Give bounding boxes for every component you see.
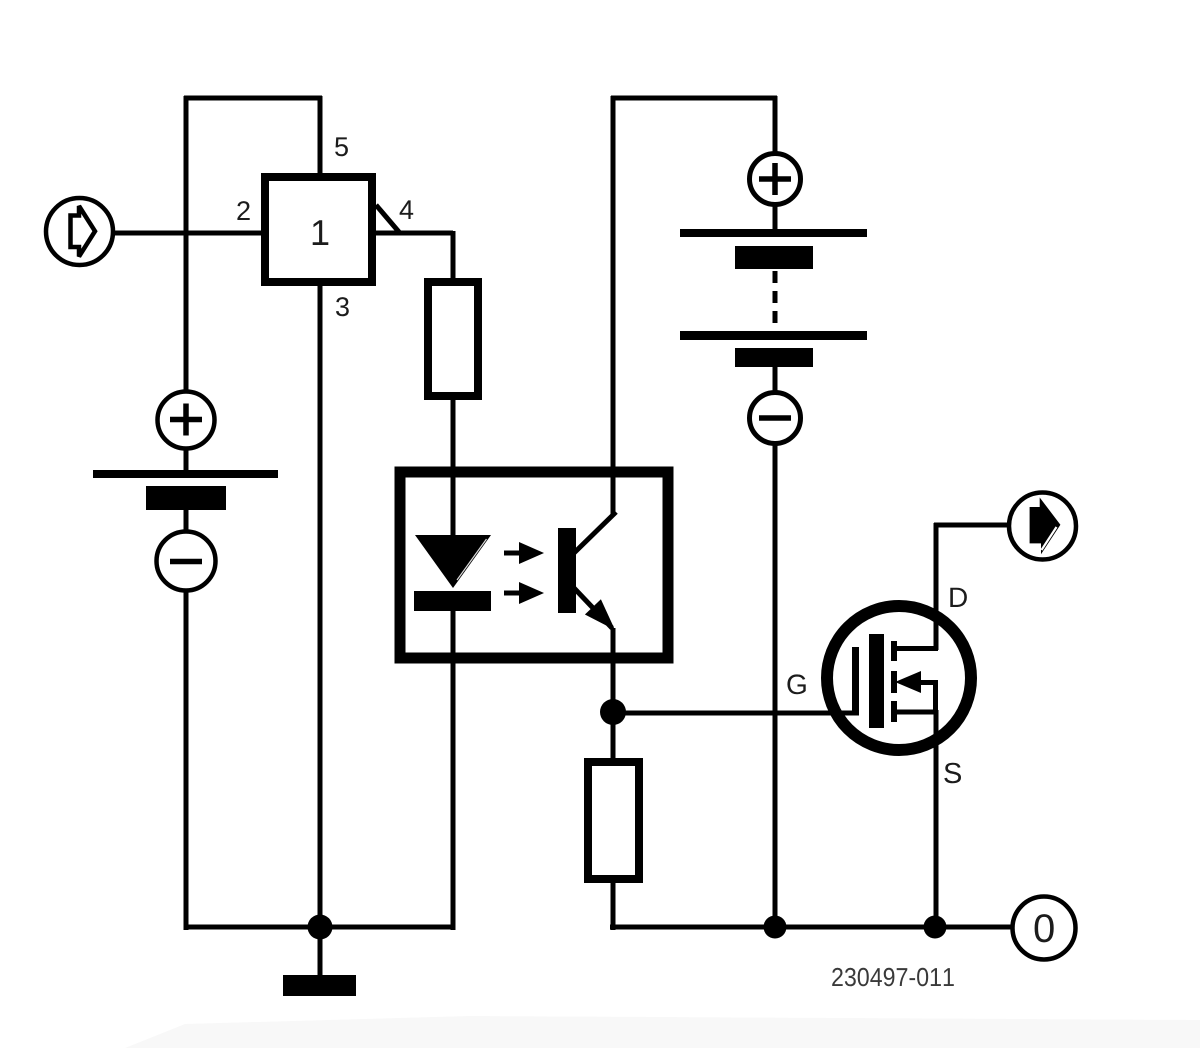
wire pin 4 vertical to R1 bbox=[451, 231, 456, 280]
battery BT2 bar 1 bbox=[735, 246, 813, 269]
MOSFET source stub bbox=[897, 710, 938, 715]
wire input to pin 2 bbox=[113, 231, 263, 236]
wire R2 to bottom bbox=[611, 881, 616, 930]
IC block 1 bbox=[265, 177, 372, 282]
wire pin 4 horizontal bbox=[375, 231, 453, 236]
battery BT1 minus terminal bbox=[157, 532, 216, 591]
battery BT2 dashed link bbox=[773, 271, 778, 331]
wire bottom-right horizontal bbox=[610, 925, 1011, 930]
MOSFET tick source bbox=[891, 701, 897, 722]
junction dot source bottom bbox=[924, 916, 947, 939]
battery BT2 plus terminal bbox=[750, 154, 801, 205]
junction dot ground node bbox=[308, 915, 333, 940]
wire to battery2 + bbox=[773, 96, 778, 153]
wire ground lead bbox=[318, 927, 323, 977]
wire gate node to R2 bbox=[611, 710, 616, 760]
label 1 bbox=[313, 220, 329, 245]
label D bbox=[950, 588, 967, 607]
battery BT1 plus terminal bbox=[158, 392, 215, 449]
MOSFET tick body bbox=[891, 671, 897, 693]
wire output horizontal bbox=[934, 523, 1009, 528]
wire drain vertical bbox=[934, 523, 939, 650]
input terminal bbox=[46, 198, 113, 265]
pin label 3 bbox=[336, 297, 349, 316]
wire LED cathode down bbox=[451, 609, 456, 930]
caption 230497-011 bbox=[832, 968, 954, 987]
junction dot battery2 bottom bbox=[764, 916, 787, 939]
battery BT1 thick bar bbox=[146, 486, 226, 510]
wire battery2 - down to bottom junction bbox=[773, 443, 778, 930]
MOSFET T1 body circle bbox=[827, 606, 971, 750]
wire top-left horizontal bbox=[184, 96, 322, 101]
MOSFET body-source link bbox=[933, 682, 938, 712]
paper shading bottom strip bbox=[125, 1016, 1200, 1048]
resistor R2 bbox=[588, 762, 639, 879]
battery BT2 bar 2 bbox=[735, 348, 813, 367]
wire emitter down to gate node bbox=[611, 628, 616, 716]
wire gate horizontal bbox=[613, 711, 857, 716]
wire battery cell to minus circle bbox=[184, 508, 189, 533]
wire pin 3 vertical bbox=[318, 285, 323, 927]
battery BT2 plate 2 bbox=[680, 331, 867, 340]
pin label 5 bbox=[335, 137, 348, 156]
wire left vertical (top wire to battery +) bbox=[184, 96, 189, 392]
wire top-right horizontal bbox=[611, 96, 777, 101]
wire pin 5 vertical bbox=[318, 96, 323, 175]
MOSFET body arrow bbox=[895, 671, 921, 693]
resistor R1 bbox=[428, 282, 478, 396]
MOSFET drain stub bbox=[897, 646, 938, 651]
MOSFET body stub bbox=[918, 680, 938, 685]
pin label 4 bbox=[400, 200, 414, 219]
junction dot gate node bbox=[600, 699, 626, 725]
wire battery2 bar2 to minus circle bbox=[773, 366, 778, 393]
MOSFET tick drain bbox=[891, 641, 897, 661]
LED highlight bbox=[457, 539, 487, 580]
battery BT2 minus terminal bbox=[750, 393, 801, 444]
optocoupler box bbox=[400, 472, 668, 658]
phototransistor base plate bbox=[558, 528, 576, 613]
MOSFET channel bar bbox=[869, 634, 884, 728]
pin label 2 bbox=[237, 201, 249, 220]
ground symbol bbox=[283, 975, 356, 996]
phototransistor emitter arrowhead bbox=[585, 599, 615, 630]
label G bbox=[787, 674, 805, 694]
wire source vertical bbox=[934, 710, 939, 927]
light arrow 1 bbox=[504, 542, 544, 564]
wire R1 to LED anode bbox=[451, 398, 456, 537]
phototransistor emitter diagonal bbox=[574, 588, 612, 628]
wire bottom-left horizontal bbox=[184, 925, 453, 930]
battery BT2 plate 1 bbox=[680, 229, 867, 237]
0 terminal bbox=[1013, 897, 1076, 960]
LED cathode bar bbox=[414, 591, 491, 611]
label S bbox=[944, 763, 961, 784]
wire pin 4 diagonal tick bbox=[376, 205, 399, 232]
wire battery2 + to plate bbox=[773, 204, 778, 231]
output terminal bbox=[1009, 493, 1076, 560]
light arrow 2 bbox=[504, 582, 544, 604]
LED triangle bbox=[415, 535, 491, 588]
MOSFET gate plate bbox=[852, 647, 859, 716]
wire battery + lead bbox=[184, 448, 189, 472]
phototransistor collector diagonal bbox=[574, 512, 616, 553]
wire phototransistor collector up bbox=[611, 96, 616, 514]
wire battery - down to bottom bbox=[184, 590, 189, 930]
battery BT1 plate bbox=[93, 470, 278, 478]
